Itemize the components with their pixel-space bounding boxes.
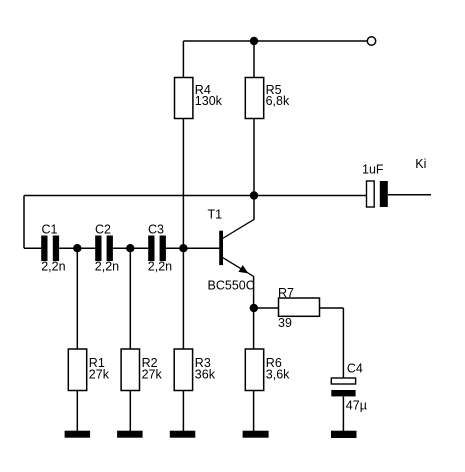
terminal supply (open circle)	[367, 37, 375, 45]
node supply junction	[250, 37, 258, 45]
svg-text:1uF: 1uF	[362, 163, 384, 177]
wire R4 bottom / base-divider vertical (crosses feedback wire, joins base node, down to R3)	[182, 119, 184, 350]
wire supply top rail	[183, 40, 367, 42]
ground R2	[117, 431, 143, 438]
wire down to C4	[342, 308, 344, 378]
node collector junction	[250, 191, 258, 199]
ground R3	[170, 431, 196, 438]
wire feedback left vertical	[23, 196, 25, 249]
ground C4	[331, 431, 357, 438]
resistor R6	[245, 349, 290, 391]
wire R5 bottom lead to collector node	[253, 119, 255, 196]
wire emitter vertical down to R6	[253, 276, 255, 349]
wire R1 top lead	[76, 248, 78, 349]
svg-text:C3: C3	[148, 223, 164, 237]
transistor T1	[208, 208, 255, 277]
svg-text:BC550C: BC550C	[208, 279, 255, 293]
resistor R1	[68, 349, 109, 391]
capacitor C4	[331, 361, 367, 412]
capacitor 1uF coupling	[362, 163, 388, 208]
node emitter junction	[250, 304, 258, 312]
resistor R2	[121, 349, 162, 391]
svg-text:6,8k: 6,8k	[266, 94, 290, 108]
ground R6	[243, 431, 269, 438]
resistor R4	[175, 78, 223, 119]
node C2-R2 junction	[126, 244, 134, 252]
wire R5 top lead	[253, 41, 255, 78]
capacitor C1	[41, 223, 65, 274]
wire to C1	[24, 247, 41, 249]
wire C2 to C3	[113, 247, 148, 249]
resistor R7	[278, 286, 320, 330]
wire collector / output horizontal	[24, 195, 367, 197]
svg-text:R7: R7	[278, 286, 294, 300]
svg-text:27k: 27k	[89, 367, 110, 381]
resistor R5	[245, 78, 290, 119]
svg-text:27k: 27k	[142, 367, 163, 381]
svg-text:36k: 36k	[195, 367, 216, 381]
svg-text:C4: C4	[347, 361, 363, 375]
svg-text:47µ: 47µ	[346, 398, 367, 412]
wire R2 top lead	[129, 248, 131, 349]
node C1-R1 junction	[73, 244, 81, 252]
svg-text:T1: T1	[208, 208, 223, 222]
wire R2 bottom lead	[129, 391, 131, 432]
svg-text:Ki: Ki	[415, 157, 426, 171]
wire R7 right lead	[320, 307, 344, 309]
wire R1 bottom lead	[76, 391, 78, 432]
wire C4 bottom lead	[342, 396, 344, 431]
wire R3 bottom lead	[182, 391, 184, 432]
svg-text:C2: C2	[95, 223, 111, 237]
svg-text:C1: C1	[42, 223, 58, 237]
wire base lead	[166, 247, 219, 249]
svg-text:130k: 130k	[195, 94, 223, 108]
wire C1 to C2	[59, 247, 95, 249]
svg-text:2,2n: 2,2n	[41, 259, 65, 273]
capacitor C2	[95, 223, 119, 274]
wire output right of 1uF	[388, 194, 431, 196]
wire R4 top lead	[182, 41, 184, 78]
capacitor C3	[148, 223, 172, 274]
ground R1	[65, 431, 91, 438]
node base junction	[179, 244, 187, 252]
resistor R3	[174, 349, 216, 391]
svg-text:39: 39	[278, 316, 292, 330]
wire collector vertical	[253, 196, 255, 220]
svg-text:3,6k: 3,6k	[266, 367, 290, 381]
svg-text:2,2n: 2,2n	[95, 259, 119, 273]
wire emitter node to R7	[254, 307, 278, 309]
wire R6 bottom lead	[253, 391, 255, 432]
svg-text:2,2n: 2,2n	[148, 259, 172, 273]
